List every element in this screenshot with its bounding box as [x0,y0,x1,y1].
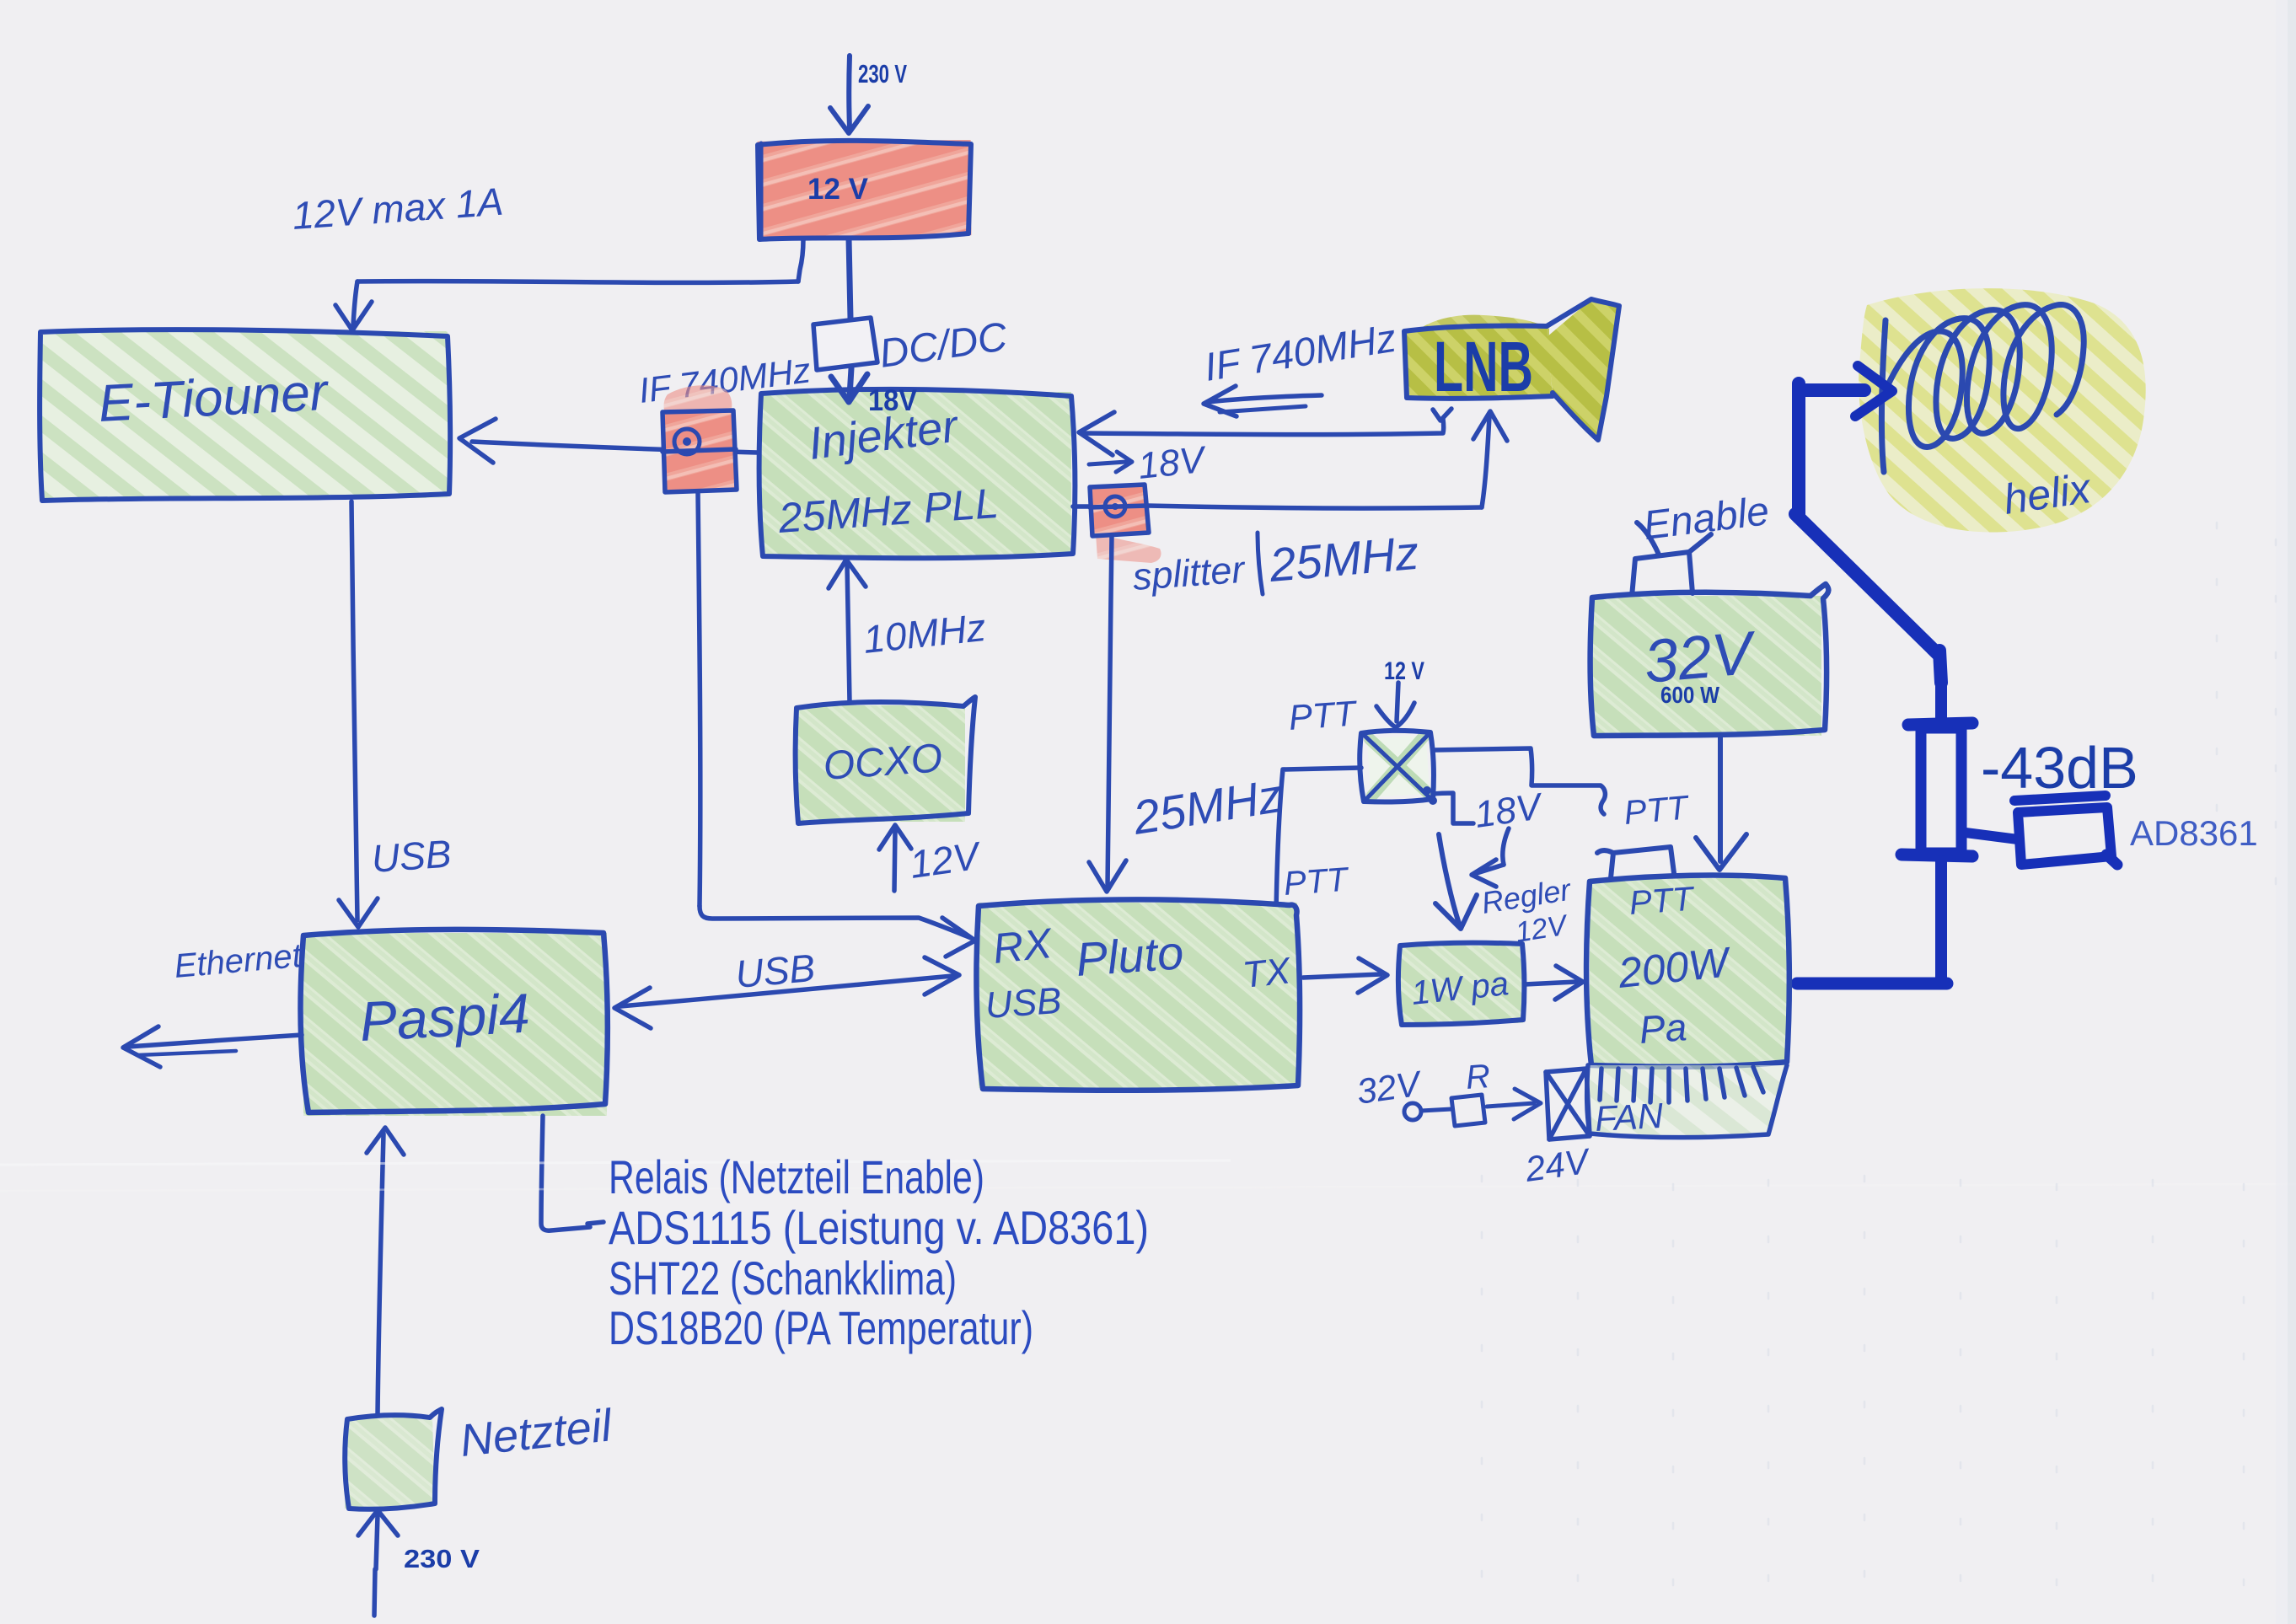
wire 12V to 12Vmax1A rail [335,239,803,330]
svg-text:SHT22 (Schankklima): SHT22 (Schankklima) [609,1251,957,1305]
paper crease [0,1160,2296,1191]
label IF 740MHz (near LNB) with arrow [1201,315,1398,416]
svg-text:-43dB: -43dB [1981,735,2138,801]
AD8361 power detector (thick box) [1966,796,2117,865]
wire LNB to Injekter (upper) [1079,409,1451,455]
wire Netzteil up to RasPi [367,1128,404,1416]
wire PTT switch to Regler (lower right) [1433,793,1509,887]
label PTT (right, handwritten) [1623,789,1692,832]
power supply 32V 600W box [1591,584,1829,736]
svg-text:AD8361: AD8361 [2130,813,2258,853]
PTT switch box (X) [1360,731,1437,805]
power supply 12V (red box) [758,140,972,239]
svg-text:12 V: 12 V [1384,657,1424,685]
svg-text:PTT: PTT [1287,693,1360,737]
label 24V [1522,1140,1594,1189]
label Netzteil [458,1400,615,1466]
svg-text:DS18B20 (PA Temperatur): DS18B20 (PA Temperatur) [609,1301,1033,1354]
svg-text:USB: USB [984,980,1063,1026]
label Enable [1641,489,1772,549]
label 18V (staircase) [1473,785,1547,836]
DC/DC converter [813,314,1010,377]
wire 32V down to PA [1696,737,1746,870]
label AD8361 [2130,813,2258,853]
wire filter down then to Pluto RX [698,492,975,957]
200W PA box [1586,876,1789,1067]
svg-text:RX: RX [990,919,1055,973]
wire PTT switch to PA (upper right) [1433,748,1605,814]
heatsink under PA [1587,1065,1787,1138]
attenuator -43dB (thick resistor) [1797,683,1972,984]
label IF 740MHz (left) [636,350,813,410]
svg-text:USB: USB [733,946,817,996]
label 230V bottom [404,1544,480,1573]
E-Tuner box [40,330,450,501]
label FAN [1594,1096,1665,1139]
enable relay symbol [1632,523,1711,597]
svg-text:FAN: FAN [1594,1096,1665,1139]
Pluto SDR box [976,899,1300,1090]
svg-text:PTT: PTT [1623,789,1692,832]
RasPi4 box [300,930,607,1116]
fan symbol [1546,1069,1590,1139]
svg-text:LNB: LNB [1434,327,1533,406]
svg-text:230 V: 230 V [858,59,907,88]
wire 230V into Netzteil [358,1510,398,1616]
thick feed line to helix with arrow [1795,366,1941,683]
1W PA box [1398,943,1524,1025]
fan supply circuit: terminal, resistor, arrow [1404,1089,1541,1126]
svg-text:18V: 18V [868,384,918,417]
wire 12V into OCXO [879,825,985,891]
label splitter 25MHz [1131,526,1421,598]
injector box 25MHz PLL [759,389,1076,558]
wire DC/DC 18V arrow [831,368,867,402]
wire 12V to DC/DC [849,239,850,319]
wire 230V down arrow [830,56,868,133]
svg-text:PTT: PTT [1283,861,1351,903]
svg-text:12 V: 12 V [807,173,869,206]
label Ethernet [173,937,304,985]
wire Injekter to LNB (lower, 25MHz+18V) [1073,411,1507,508]
svg-text:E-Tiouner: E-Tiouner [97,363,330,433]
Netzteil box [345,1409,442,1509]
svg-text:Paspi4: Paspi4 [358,982,531,1053]
label helix [2001,464,2095,523]
helix antenna highlight blob [1859,288,2146,532]
wire 12V into PTT switch [1376,683,1414,727]
faint ruling dots bottom right [1482,523,2276,1618]
wire OCXO 10MHz to Injekter [829,560,866,702]
filter box (red, left of Injekter) [663,385,737,492]
PTT bracket on PA top [1597,847,1674,878]
wire Pluto TX to 1W PA [1303,958,1387,993]
svg-text:ADS1115 (Leistung v. AD8361): ADS1115 (Leistung v. AD8361) [609,1201,1149,1254]
svg-text:R: R [1465,1058,1492,1096]
wire RasPi to sensor list [541,1116,604,1230]
label PTT (lower) [1283,861,1351,903]
svg-text:OCXO: OCXO [822,736,944,789]
svg-text:Pluto: Pluto [1074,925,1185,986]
wire E-Tuner USB down to RasPi [339,501,378,927]
wire PTT switch to Pluto [1269,768,1361,922]
label 12V max 1A [291,180,505,238]
label USB (horizontal) [733,946,817,996]
wire Ethernet out [123,1026,302,1067]
label 18V arrow (to LNB) [1089,439,1210,487]
LNB feedhorn [1404,299,1619,440]
splitter box (red) [1090,485,1161,563]
svg-text:600 W: 600 W [1660,682,1719,708]
label 12V (PTT switch) [1384,657,1424,685]
label 32V R (fan supply) [1355,1058,1492,1112]
wire USB RasPi to Pluto [614,957,959,1028]
svg-text:splitter: splitter [1131,548,1247,598]
label 230V top [858,59,907,88]
label Regler 12V [1479,872,1574,949]
scanner edge shading [2276,0,2296,1624]
svg-text:PTT: PTT [1628,881,1697,922]
wire splitter down 25MHz to Pluto [1089,536,1126,892]
svg-text:USB: USB [370,832,453,881]
wire arrow down into 1W PA [1435,834,1477,929]
svg-text:Pa: Pa [1638,1005,1688,1052]
label -43dB [1981,735,2138,801]
label 18V [868,384,918,417]
svg-text:230 V: 230 V [404,1544,480,1573]
helix coil drawing [1881,305,2084,472]
label USB (vertical) [370,832,453,881]
label 10MHz [861,605,988,662]
sensor list text [609,1150,1149,1354]
OCXO box [796,697,975,823]
label PTT (upper) [1287,693,1360,737]
svg-text:Relais (Netzteil Enable): Relais (Netzteil Enable) [609,1150,984,1203]
wire 1W PA to 200W PA [1525,966,1583,1000]
svg-text:TX: TX [1241,950,1294,996]
svg-text:18V: 18V [1136,439,1210,487]
label 25MHz [1129,769,1285,844]
wire Injekter to E-Tuner (IF 740MHz) [459,419,758,463]
